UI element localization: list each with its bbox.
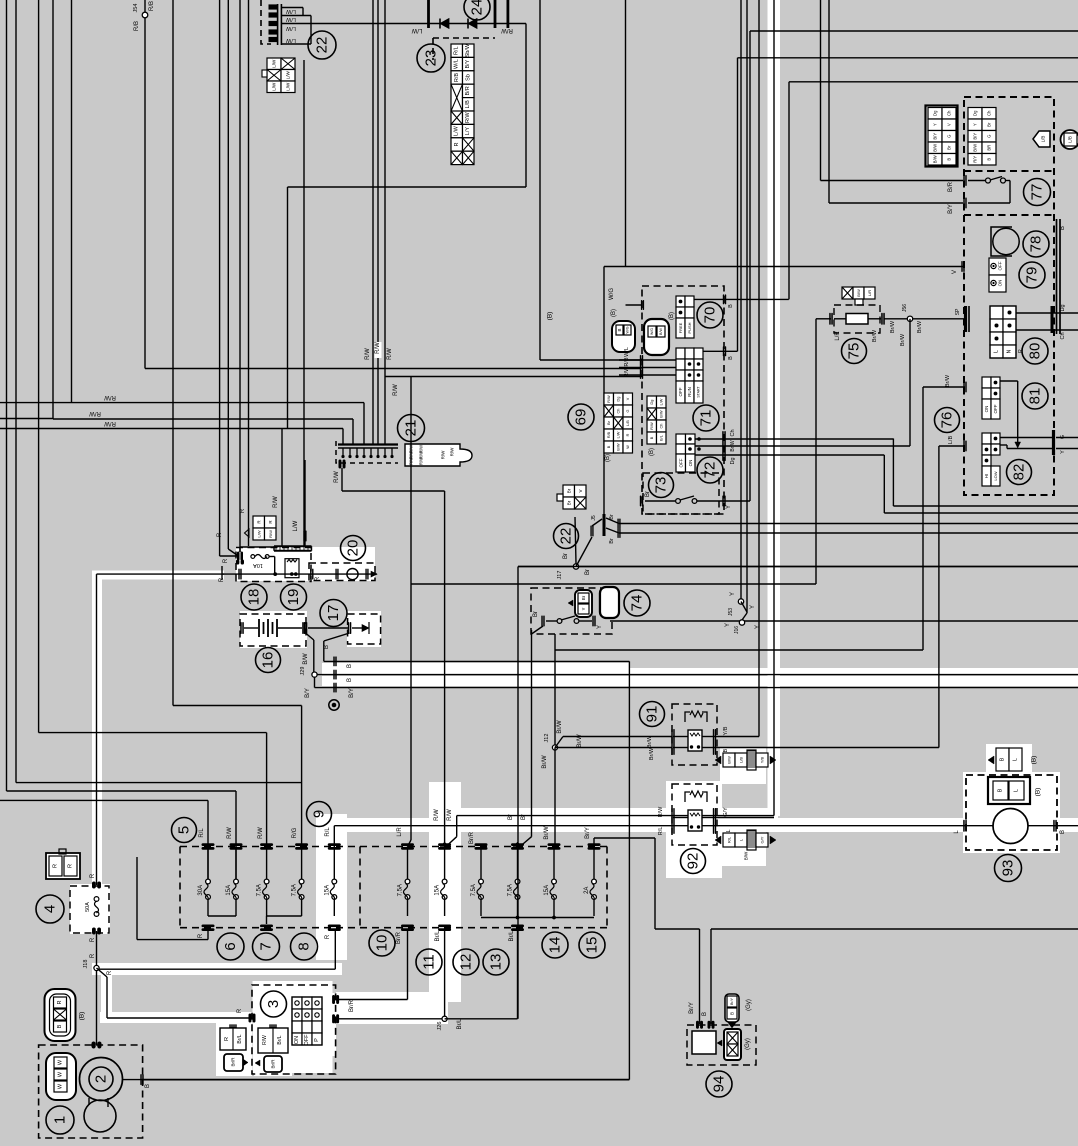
svg-text:Y: Y (597, 625, 603, 629)
wire R/W triple horizontals (0, 402, 72, 404)
wire R below 30A (207, 931, 209, 940)
diode 2 (468, 19, 477, 29)
svg-text:Ch: Ch (659, 424, 663, 429)
svg-text:B: B (702, 1012, 708, 1016)
svg-text:L/W: L/W (256, 530, 261, 537)
82 to G Y lines (1000, 437, 1054, 439)
svg-text:6: 6 (222, 942, 239, 950)
svg-text:4: 4 (42, 905, 59, 913)
component label 22 (308, 31, 336, 59)
svg-text:Dg: Dg (933, 110, 938, 116)
wire from diode line down-left (287, 187, 289, 429)
svg-text:78: 78 (1028, 236, 1045, 253)
wire Y/B main (758, 0, 760, 737)
svg-text:L/W: L/W (286, 71, 291, 80)
svg-text:Y: Y (581, 607, 586, 610)
svg-text:R/W: R/W (365, 348, 371, 360)
svg-text:B/W: B/W (727, 756, 732, 764)
G Y continue right (1056, 437, 1078, 439)
71 input pins (640, 355, 641, 379)
svg-text:BR: BR (987, 145, 992, 151)
dashed box 70-73 (642, 286, 724, 514)
svg-text:B/W: B/W (659, 410, 663, 418)
svg-text:L/W: L/W (285, 8, 296, 14)
connector 4cell by 92 (723, 833, 735, 847)
svg-text:L/W: L/W (285, 25, 296, 31)
svg-text:R/W: R/W (624, 366, 630, 378)
fuse bottom pins (202, 924, 215, 927)
svg-text:30A: 30A (198, 885, 204, 896)
svg-text:W: W (58, 1083, 64, 1089)
vertical triple R/W wires (372, 0, 374, 445)
connector 22 comb (277, 4, 279, 45)
svg-text:(Gy): (Gy) (745, 1038, 751, 1050)
wire L/W joint (303, 60, 305, 546)
svg-text:R/W: R/W (104, 420, 116, 426)
wires Ch BrW Dg right (724, 438, 893, 440)
svg-text:B: B (947, 158, 952, 161)
svg-text:7.5A: 7.5A (257, 884, 263, 896)
svg-text:7: 7 (258, 942, 275, 950)
svg-text:Br: Br (987, 122, 992, 127)
wire pair to 77 (820, 0, 822, 181)
svg-text:92: 92 (685, 853, 702, 870)
box 16 capacitor (240, 614, 306, 646)
fuse 7.5A at x=481 (479, 879, 484, 884)
svg-text:OFF: OFF (998, 261, 1003, 270)
connector block under 22 (267, 58, 281, 70)
svg-text:9: 9 (311, 810, 328, 818)
svg-text:R/G: R/G (292, 827, 298, 838)
svg-text:7.5A: 7.5A (508, 884, 514, 896)
svg-text:P: P (314, 1038, 320, 1042)
component label 79 (1019, 262, 1045, 288)
connector 4cell by 91 (723, 753, 735, 767)
svg-text:B/L: B/L (659, 435, 663, 441)
svg-text:R/W: R/W (465, 112, 471, 124)
svg-text:5: 5 (176, 826, 193, 834)
connector grid B (968, 108, 982, 120)
svg-text:N: N (1007, 349, 1013, 353)
component label 12 (453, 949, 479, 975)
fuse 15A at x=334.3 (332, 879, 337, 884)
svg-text:3: 3 (265, 1000, 282, 1008)
svg-text:Br/W: Br/W (577, 734, 583, 748)
svg-text:Ch: Ch (730, 429, 736, 436)
wire G/Y right from 92 (715, 817, 775, 819)
wire Y/B up (715, 736, 760, 738)
svg-text:16: 16 (260, 652, 277, 669)
svg-text:Dg: Dg (730, 457, 736, 464)
pin L/W mid (303, 531, 304, 542)
wire harness bundle left side (6, 0, 8, 791)
connector 74 (600, 587, 619, 618)
svg-text:Br/L: Br/L (237, 1034, 243, 1043)
svg-text:(B): (B) (649, 448, 655, 456)
svg-text:J18: J18 (83, 960, 89, 969)
svg-text:B/Y: B/Y (973, 133, 978, 140)
svg-text:R: R (53, 864, 59, 868)
svg-text:L/B: L/B (948, 436, 954, 445)
svg-text:15A: 15A (226, 885, 232, 896)
svg-text:22: 22 (314, 37, 331, 54)
fuse 10A inline (251, 555, 255, 559)
svg-text:B/W: B/W (856, 289, 861, 297)
svg-text:B: B (728, 304, 734, 308)
svg-text:B: B (324, 645, 330, 649)
component 94 (687, 1025, 756, 1065)
svg-text:Ch: Ch (616, 409, 620, 414)
switch 72 (676, 434, 686, 444)
component label 70 (697, 302, 723, 328)
svg-text:R/W: R/W (268, 530, 273, 538)
svg-text:B/W: B/W (933, 144, 938, 152)
svg-text:G/Y: G/Y (723, 807, 729, 817)
connector above horn (996, 748, 1009, 771)
svg-text:R/W: R/W (434, 809, 440, 821)
fuse 2A at x=594 (592, 879, 597, 884)
pin and R/W wire down from 21 (339, 460, 342, 469)
svg-text:1: 1 (52, 1116, 69, 1124)
component label 82 (1007, 460, 1032, 485)
switch 80 grid (990, 306, 1003, 319)
component label 22 (554, 524, 579, 549)
svg-text:Br/W: Br/W (872, 329, 878, 342)
svg-text:(B): (B) (79, 1012, 86, 1021)
svg-text:ON: ON (998, 280, 1003, 287)
component label 74 (624, 590, 650, 616)
svg-text:8: 8 (296, 942, 313, 950)
svg-text:79: 79 (1024, 267, 1041, 284)
wire y568 full (518, 566, 1078, 568)
svg-text:Br: Br (947, 145, 952, 150)
svg-text:L/B: L/B (739, 757, 744, 763)
svg-text:R/L: R/L (199, 828, 205, 838)
wire R diag (221, 566, 223, 580)
bulb 20 (335, 569, 336, 580)
svg-text:14: 14 (547, 937, 564, 954)
svg-text:B/W: B/W (933, 155, 938, 163)
svg-text:Y: Y (755, 625, 761, 629)
svg-text:Br: Br (609, 538, 615, 544)
svg-text:Y: Y (725, 623, 731, 627)
svg-text:RUN: RUN (687, 387, 692, 397)
svg-text:R/B: R/B (607, 431, 611, 438)
wire J54 branch (144, 0, 146, 369)
svg-text:Br/W: Br/W (730, 440, 736, 451)
svg-text:G/Y: G/Y (760, 836, 765, 843)
svg-text:START: START (697, 386, 701, 398)
81 wire to Y line (1000, 380, 1018, 382)
connector block R R L/W R/W (253, 516, 265, 528)
connector YBr (600, 588, 617, 617)
svg-text:OFF: OFF (678, 387, 683, 396)
svg-text:J17: J17 (557, 571, 563, 580)
svg-text:93: 93 (1000, 860, 1017, 877)
connector grid 69 right (647, 396, 657, 408)
wire Br/W J12 (554, 634, 556, 748)
svg-text:R: R (57, 1000, 63, 1004)
svg-text:B/W: B/W (744, 851, 749, 860)
switch 70 FREE PUSH (676, 296, 685, 307)
oval connector B2 (644, 319, 669, 355)
svg-text:50A: 50A (85, 902, 91, 912)
svg-text:Br: Br (609, 514, 615, 520)
fuse 7.5A at x=407.5 (405, 879, 410, 884)
svg-text:7.5A: 7.5A (471, 884, 477, 896)
connector LB round (1061, 130, 1078, 149)
svg-text:L/W: L/W (272, 82, 277, 91)
component label 1 (46, 1106, 74, 1134)
svg-text:B/R: B/R (948, 181, 954, 192)
wire B from 17 right pin (324, 633, 350, 641)
pin 20 left (310, 569, 311, 580)
svg-text:B: B (987, 158, 992, 161)
svg-text:76: 76 (939, 412, 956, 429)
svg-text:PUSH: PUSH (687, 322, 692, 333)
svg-text:L/B: L/B (626, 420, 630, 426)
svg-text:80: 80 (1027, 343, 1044, 360)
wire R to connector 18 (219, 0, 221, 556)
svg-text:HI: HI (984, 474, 989, 479)
svg-text:15A: 15A (324, 885, 330, 896)
diode line to 23 (427, 0, 430, 28)
wire R/W main (773, 0, 775, 816)
svg-text:23: 23 (423, 50, 440, 67)
fuse 7.5A at x=301.6 (299, 879, 304, 884)
svg-text:24: 24 (469, 0, 486, 15)
svg-text:B: B (347, 678, 353, 682)
svg-text:R/W: R/W (450, 447, 455, 457)
wire battery R top segment (96, 574, 98, 791)
dashed top of box 23 (433, 37, 495, 39)
svg-text:Y: Y (726, 505, 732, 509)
svg-text:R/W: R/W (273, 496, 279, 508)
connector grid A (926, 106, 958, 167)
horn circle (993, 809, 1028, 844)
svg-text:82: 82 (1011, 464, 1028, 481)
svg-text:Br/R: Br/R (231, 1057, 236, 1067)
svg-text:L/W: L/W (454, 125, 460, 136)
svg-text:R/W: R/W (334, 471, 340, 483)
svg-text:Dg: Dg (973, 110, 978, 116)
component label 91 (640, 702, 665, 727)
svg-text:10A: 10A (253, 562, 263, 568)
81 left pin Br/W (963, 382, 964, 393)
svg-text:R/W: R/W (607, 395, 611, 403)
svg-text:G: G (626, 409, 630, 412)
svg-text:R: R (223, 558, 229, 563)
wire B down to battery line (628, 661, 630, 1079)
relay RW BrL (258, 1028, 288, 1053)
fuse box dashed outline (180, 846, 607, 848)
front brake switch box (531, 588, 612, 634)
component label 14 (542, 932, 568, 958)
junction J29 (312, 672, 317, 677)
component label 13 (483, 949, 509, 975)
component label 2 (89, 1067, 113, 1091)
svg-text:R: R (224, 1037, 230, 1041)
72 output bar (722, 431, 724, 461)
svg-text:B/W: B/W (303, 653, 309, 665)
connector BrY (575, 590, 592, 617)
svg-text:R: R (217, 532, 223, 537)
svg-text:Br/W: Br/W (557, 720, 563, 734)
wire R/G long (172, 0, 174, 706)
svg-text:15A: 15A (544, 885, 550, 896)
wire R to box 3 (97, 968, 108, 977)
svg-text:L/W: L/W (659, 398, 663, 405)
bulb shape connector 21 (405, 444, 472, 466)
svg-text:Br: Br (533, 611, 539, 617)
svg-text:Br/W: Br/W (649, 747, 655, 760)
svg-text:R: R (90, 937, 96, 942)
component label 24 (464, 0, 490, 20)
svg-text:Y: Y (933, 123, 938, 126)
svg-text:(B): (B) (1035, 788, 1042, 797)
svg-text:L/W: L/W (293, 520, 299, 531)
joint connector 21 comb (338, 443, 398, 445)
wire (71, 0, 73, 403)
horn connector (988, 777, 1030, 804)
svg-text:G: G (987, 135, 992, 138)
component label 4 (36, 895, 64, 923)
svg-text:R/W: R/W (89, 410, 101, 416)
pin bar right of 24 (507, 0, 510, 28)
svg-text:Br/L: Br/L (435, 930, 441, 942)
wire to fuse 15A (235, 791, 237, 882)
svg-text:J12: J12 (544, 734, 550, 743)
svg-text:SP: SP (955, 308, 961, 315)
svg-text:Br/W: Br/W (542, 755, 548, 769)
svg-text:Ch: Ch (987, 110, 992, 116)
fuse box top pins (202, 843, 215, 846)
svg-text:B/Y: B/Y (349, 688, 355, 698)
white wire R upper corner (97, 573, 225, 575)
junction J17 and Br wire (518, 566, 1078, 568)
svg-text:LOW: LOW (993, 471, 998, 480)
wire 70 to B pin (694, 298, 789, 300)
svg-text:Br/R: Br/R (271, 1059, 276, 1069)
bus pins (333, 656, 334, 666)
svg-text:B/Y: B/Y (948, 204, 954, 214)
svg-text:Br: Br (521, 814, 527, 820)
svg-text:FREE: FREE (678, 322, 683, 333)
82 pins and wires (963, 441, 964, 452)
svg-text:R/L: R/L (325, 827, 331, 837)
wire (266, 733, 268, 847)
component label 93 (995, 855, 1022, 882)
svg-text:B: B (617, 328, 622, 331)
junction J18 (94, 965, 99, 970)
svg-text:J54: J54 (133, 4, 139, 13)
svg-text:J29: J29 (300, 667, 306, 676)
hatched joint bar (274, 545, 312, 547)
component label 20 (341, 536, 366, 561)
svg-text:R: R (90, 953, 96, 958)
svg-text:R/Y: R/Y (973, 156, 978, 163)
component label 77 (1024, 179, 1051, 206)
wire Br/W down from J56 (909, 319, 911, 446)
junction J56 (885, 318, 966, 320)
svg-text:B: B (607, 445, 611, 448)
svg-text:R/W: R/W (104, 394, 116, 400)
main line through 18/19 (238, 569, 239, 580)
svg-text:R/B: R/B (134, 21, 140, 31)
fuse 7.5A at x=517.5 (515, 879, 520, 884)
fuse 15A at x=444.6 (442, 879, 447, 884)
svg-text:Br/L: Br/L (509, 930, 515, 942)
fuse 7.5A at x=266.6 (264, 879, 269, 884)
svg-text:Dg: Dg (1060, 304, 1066, 311)
component label 19 (281, 584, 307, 610)
svg-text:19: 19 (285, 589, 302, 606)
svg-text:G: G (947, 135, 952, 138)
svg-text:B: B (57, 1024, 63, 1028)
wire R/W (0, 418, 53, 420)
svg-text:B: B (1060, 226, 1066, 230)
wires to 94 (654, 838, 656, 929)
wire R/W from comb to switch bar (385, 376, 642, 378)
fuse 30A at x=208 (206, 879, 211, 884)
svg-text:W: W (58, 1071, 64, 1077)
component label 8 (291, 933, 318, 960)
component label 6 (217, 933, 244, 960)
component label 80 (1022, 338, 1048, 364)
svg-text:W: W (58, 1059, 64, 1065)
arrow 20 (371, 571, 377, 577)
svg-text:R: R (107, 970, 113, 975)
connector above 75 (842, 287, 853, 299)
component label 11 (416, 949, 442, 975)
wire R/W third (0, 428, 288, 430)
svg-text:2A: 2A (584, 887, 590, 894)
connector Gy above 94 (725, 994, 739, 1022)
svg-text:L: L (1013, 758, 1019, 761)
double line right (1056, 219, 1058, 334)
svg-text:L/W: L/W (272, 59, 277, 68)
svg-text:W/L: W/L (624, 347, 630, 357)
svg-text:R: R (68, 864, 74, 868)
connector LB pentagon (1033, 131, 1050, 147)
svg-text:L/B: L/B (465, 100, 471, 109)
svg-text:W/L: W/L (454, 59, 460, 69)
wire to fuse 30A (0, 799, 208, 801)
battery minus line (142, 1079, 629, 1081)
component label 92 (681, 849, 706, 874)
svg-text:V: V (947, 123, 952, 126)
svg-text:18: 18 (246, 589, 263, 606)
component 17 arrow box (348, 614, 381, 644)
component label 21 (398, 415, 425, 442)
svg-text:ON: ON (984, 406, 989, 413)
svg-text:Y: Y (1060, 450, 1066, 454)
svg-text:Br: Br (566, 488, 571, 493)
wires Dg Ch right (1016, 312, 1078, 314)
svg-text:L/B: L/B (1068, 136, 1073, 143)
svg-text:91: 91 (644, 706, 661, 723)
svg-text:L/R: L/R (835, 331, 841, 341)
Br diag from switch (532, 626, 544, 634)
svg-text:L/Y: L/Y (465, 127, 471, 136)
svg-text:Br/W: Br/W (647, 735, 653, 748)
svg-text:B/R: B/R (465, 86, 471, 95)
svg-text:B/W: B/W (616, 443, 620, 451)
dashed box 1-2 (39, 1045, 143, 1138)
svg-text:OFF: OFF (993, 404, 998, 413)
svg-text:R/W: R/W (658, 806, 664, 818)
component label 17 (320, 600, 347, 627)
